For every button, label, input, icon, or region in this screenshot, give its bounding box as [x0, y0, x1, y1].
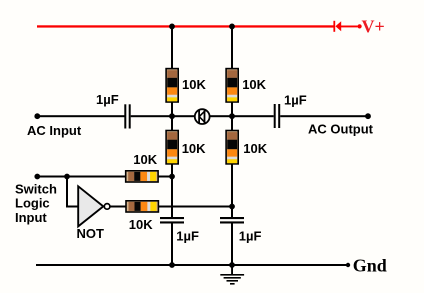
- wire R6 to node E (crosses column A, no junction): [158, 206, 233, 208]
- wire rail to R2 top (column B): [231, 26, 233, 69]
- node junction dot ground / column A: [169, 262, 175, 268]
- svg-text:AC Input: AC Input: [27, 123, 82, 138]
- wire C5 to ground rail: [231, 224, 233, 266]
- svg-text:10K: 10K: [182, 77, 206, 92]
- resistor R1 10K (vertical, color bands): [166, 69, 178, 102]
- wire NOT output to R6: [110, 206, 126, 208]
- node junction dot rail / column A: [169, 24, 175, 30]
- svg-text:Switch: Switch: [15, 181, 57, 196]
- wire node E down to C5: [231, 207, 233, 218]
- wire R5 to node D: [158, 176, 172, 178]
- capacitor C1 1uF (series, vertical plates): [124, 104, 130, 128]
- wire AC input to C1: [37, 115, 125, 117]
- node junction dot D (column A / R5): [169, 174, 175, 180]
- svg-text:10K: 10K: [242, 77, 266, 92]
- wire R4 bottom to node E (column B): [231, 164, 233, 208]
- wire ground rail: [36, 264, 348, 266]
- capacitor C5 1uF (shunt, horizontal plates): [220, 217, 244, 224]
- wire C1 to node A: [131, 115, 195, 117]
- svg-text:1µF: 1µF: [239, 229, 262, 244]
- node Gnd terminal dot: [346, 263, 350, 267]
- capacitor C2 1uF (series, vertical plates): [274, 104, 281, 128]
- diode D1 (red, cathode bar left, arrow pointing left): [333, 21, 341, 32]
- node AC input terminal dot: [34, 113, 40, 119]
- node junction dot E (column B / R6): [229, 204, 235, 210]
- svg-text:Logic: Logic: [15, 196, 50, 211]
- wire rail to R1 top (column A): [171, 26, 173, 69]
- wire C4 to ground rail: [171, 224, 173, 266]
- svg-text:1µF: 1µF: [176, 229, 199, 244]
- wire AC line to R3 top (column A): [171, 116, 173, 131]
- wire Q1 to node B: [209, 115, 232, 117]
- wire switch input to R5: [37, 176, 126, 178]
- node V+ terminal dot (red): [358, 24, 362, 28]
- svg-text:10K: 10K: [243, 141, 267, 156]
- node AC output terminal dot: [365, 113, 371, 119]
- wire R3 bottom to node D (column A): [171, 164, 173, 178]
- resistor R3 10K (vertical, color bands): [166, 131, 178, 164]
- svg-text:NOT: NOT: [77, 226, 105, 241]
- resistor R2 10K (vertical, color bands): [226, 69, 238, 102]
- wire R2 bottom to AC line: [231, 102, 233, 117]
- svg-text:V+: V+: [362, 16, 385, 36]
- node switch logic input terminal dot: [34, 174, 40, 180]
- svg-text:Gnd: Gnd: [353, 256, 387, 276]
- resistor R6 10K (horizontal, color bands): [126, 201, 158, 212]
- resistor R4 10K (vertical, color bands): [226, 131, 238, 164]
- wire into NOT gate: [66, 206, 79, 208]
- svg-text:1µF: 1µF: [284, 93, 307, 108]
- resistor R5 10K (horizontal, color bands): [126, 171, 158, 182]
- label Switch Logic Input (3 lines): [15, 181, 57, 224]
- gate U1 NOT (inverter triangle with bubble): [78, 186, 110, 226]
- node junction dot column A / AC line: [169, 113, 175, 119]
- ground symbol (earth, 4 bars): [220, 265, 244, 285]
- wire R1 bottom to AC line: [171, 102, 173, 117]
- capacitor C4 1uF (shunt, horizontal plates): [160, 217, 184, 224]
- node junction dot to NOT gate branch: [64, 174, 70, 180]
- wire branch down to NOT gate input: [66, 177, 68, 208]
- wire node B to C2: [234, 115, 274, 117]
- svg-text:10K: 10K: [133, 152, 157, 167]
- wire C2 to AC output: [280, 115, 368, 117]
- svg-text:10K: 10K: [182, 141, 206, 156]
- wire AC line to R4 top (column B): [231, 116, 233, 131]
- svg-text:Input: Input: [15, 210, 47, 225]
- wire V+ rail (red): [37, 25, 334, 27]
- svg-text:AC Output: AC Output: [308, 122, 374, 137]
- wire node D down to C4: [171, 177, 173, 218]
- node junction dot ground / column B: [229, 262, 235, 268]
- transistor Q1 FET switch element (circle symbol): [195, 109, 210, 124]
- wire diode to V+ dot (red): [341, 26, 358, 28]
- node junction dot rail / column B: [229, 24, 235, 30]
- node junction dot column B / AC line: [229, 113, 235, 119]
- svg-text:1µF: 1µF: [96, 92, 119, 107]
- svg-text:10K: 10K: [129, 217, 153, 232]
